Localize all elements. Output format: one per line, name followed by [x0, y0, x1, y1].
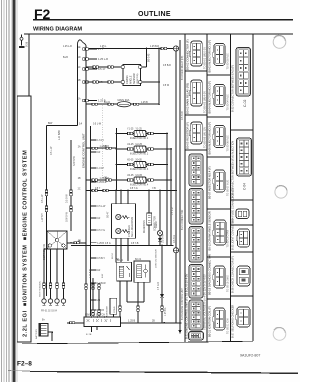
svg-text:TO B0-07 INJE: TO B0-07 INJE: [227, 179, 230, 196]
svg-text:HIGH TENSION: HIGH TENSION: [40, 281, 42, 297]
punch hole middle: [275, 186, 287, 198]
inline connector stacks on left verticals: [45, 190, 48, 193]
wire horizontal y190.5: [86, 190, 176, 192]
col1 connector icon row3: [191, 122, 203, 144]
wire horizontal y245.3: [71, 244, 173, 246]
svg-text:S/W B-W: S/W B-W: [66, 211, 69, 222]
svg-text:1R: 1R: [97, 152, 100, 154]
svg-text:0.5 B-R: 0.5 B-R: [173, 235, 176, 243]
svg-text:U2-25 U2-25: U2-25 U2-25: [127, 143, 143, 146]
instrument cluster lamp: [159, 191, 161, 231]
svg-text:1R: 1R: [97, 218, 100, 220]
svg-text:INJECTOR NO.4: INJECTOR NO.4: [130, 184, 149, 187]
svg-text:INJECTOR NO.1: INJECTOR NO.1: [130, 137, 149, 140]
wire top horizontal y48.5: [89, 48, 173, 50]
svg-text:B0-47: B0-47: [107, 211, 110, 218]
svg-text:B0-05 RESISTOR (F): B0-05 RESISTOR (F): [186, 122, 190, 149]
col3 big grid connector 1: [236, 48, 251, 97]
table col2 row borders: [207, 75, 231, 299]
wire bottom bus y322.8 right segment: [121, 322, 182, 324]
wire ECU spine vertical x86: [85, 46, 87, 318]
svg-text:0.5 G-O: 0.5 G-O: [158, 282, 160, 290]
wires out of checker bottom: [116, 238, 128, 262]
bottom page edge shadow: [30, 371, 298, 374]
svg-text:2B: 2B: [152, 321, 155, 323]
diagram left border above tab: [28, 34, 30, 97]
svg-text:TO B0-03 INJE: TO B0-03 INJE: [227, 53, 230, 70]
svg-text:0.5 Y-G: 0.5 Y-G: [97, 230, 105, 232]
svg-text:B-02 MAIN RELAY (FB): B-02 MAIN RELAY (FB): [181, 55, 184, 80]
col3 connector row6: [237, 307, 250, 327]
svg-text:1.25 B: 1.25 B: [141, 102, 148, 104]
svg-text:C-04: C-04: [243, 183, 247, 190]
distributor assembly: [47, 231, 67, 249]
svg-text:B-26: B-26: [63, 57, 69, 59]
circulation pump box: [110, 298, 117, 314]
col2 connector icon row4: [214, 170, 225, 192]
svg-text:0.5 L-W: 0.5 L-W: [41, 194, 44, 203]
svg-text:B0-02 MAIN RELAY (FB): B0-02 MAIN RELAY (FB): [186, 83, 190, 114]
svg-text:1.25 B-R: 1.25 B-R: [150, 46, 159, 48]
side tab box: [17, 96, 31, 342]
svg-text:2.2L EGI ■IGNITION SYSTEM ■E: 2.2L EGI ■IGNITION SYSTEM ■ENGINE CONTRO…: [23, 150, 29, 337]
col2 connector icon row2: [214, 85, 225, 107]
svg-text:1.0 1P: 1.0 1P: [97, 168, 104, 170]
col1 connector icon row2: [191, 80, 203, 106]
svg-text:X0-05 X0-05: X0-05 X0-05: [127, 159, 142, 162]
junction ring node x176 y250: [173, 248, 178, 253]
svg-text:TO B0-04 INJE: TO B0-04 INJE: [227, 94, 230, 111]
svg-text:B-22 CONNECTOR BETWEEN ENG (F): B-22 CONNECTOR BETWEEN ENG (F): [230, 65, 234, 112]
svg-text:Y-B: Y-B: [152, 188, 156, 190]
svg-text:L-W B/Y: L-W B/Y: [41, 213, 44, 222]
svg-text:0.5 Y-B: 0.5 Y-B: [131, 243, 139, 245]
svg-text:C-02: C-02: [243, 100, 247, 107]
svg-text:INJECTOR NO.2: INJECTOR NO.2: [130, 153, 149, 156]
svg-text:1.25 B-R: 1.25 B-R: [97, 182, 106, 184]
svg-text:COND: COND: [114, 306, 116, 313]
diode D2 right: [161, 245, 163, 294]
svg-text:0.5 L-R: 0.5 L-R: [172, 207, 174, 215]
svg-text:B0-18 DIAGNOSIS CONNECTOR: B0-18 DIAGNOSIS CONNECTOR: [208, 254, 212, 295]
svg-text:1R: 1R: [104, 178, 107, 180]
col3 connector row4: [238, 229, 250, 247]
wire left vertical x46.5: [46, 126, 48, 297]
wire crank sensor right to x159: [142, 81, 159, 83]
svg-text:L-R B/W: L-R B/W: [57, 130, 61, 140]
wire left vertical x70.8: [70, 140, 72, 231]
svg-text:B0-52: B0-52: [112, 252, 114, 259]
wire branch left y125.5: [47, 125, 78, 127]
svg-text:1.6 1Y: 1.6 1Y: [97, 140, 104, 142]
svg-text:2E: 2E: [78, 241, 81, 243]
svg-text:1D: 1D: [78, 57, 81, 59]
indicator lamp 2: [116, 228, 121, 233]
spine pin stubs with connector pairs: [83, 47, 108, 103]
svg-text:B0-04 INJECTOR NO.2 (F): B0-04 INJECTOR NO.2 (F): [208, 81, 212, 114]
svg-text:DISTRIBUTOR: DISTRIBUTOR: [43, 244, 46, 260]
table outer borders: [185, 34, 253, 342]
svg-text:WARN: WARN: [155, 221, 158, 228]
svg-text:1.25 L-R: 1.25 L-R: [63, 46, 72, 48]
table col1 row borders: [185, 71, 207, 150]
main relay box K1: [117, 262, 132, 281]
svg-text:1R: 1R: [97, 270, 100, 272]
svg-text:B-26 CHECK CONNECTOR (F): B-26 CHECK CONNECTOR (F): [230, 256, 234, 293]
col3 small connector row3: [236, 209, 249, 219]
svg-text:SELF-DIAGNOSIS: SELF-DIAGNOSIS: [131, 217, 134, 237]
svg-text:0.5 B-R: 0.5 B-R: [163, 65, 171, 67]
svg-text:14: 14: [79, 122, 83, 126]
svg-text:0.5 L-W: 0.5 L-W: [93, 124, 102, 126]
svg-text:B-21 CONNECTOR: B-21 CONNECTOR: [182, 209, 184, 230]
col2 connector icon row3: [214, 126, 225, 148]
svg-text:B-27 SELF-DIAG CHECKER: B-27 SELF-DIAG CHECKER: [230, 305, 234, 338]
svg-text:0.5 Y-G: 0.5 Y-G: [130, 188, 138, 190]
svg-text:B-22 ENGINE CONTROL UNIT (F) T: B-22 ENGINE CONTROL UNIT (F) TO ECU 0-1V…: [185, 273, 189, 339]
svg-text:0.5 L-W: 0.5 L-W: [97, 206, 106, 208]
svg-text:DIAGNOSIS: DIAGNOSIS: [143, 220, 146, 233]
svg-text:9A1UF2-807: 9A1UF2-807: [240, 354, 260, 358]
scan streak band left edge: [2, 0, 18, 382]
svg-text:(IGNITER): (IGNITER): [137, 73, 139, 84]
ground symbol below spine top: [77, 121, 79, 123]
col1 ECU long grid connector: [189, 154, 203, 186]
col3 big grid connector 2: [237, 138, 252, 176]
svg-text:MAIN 30A: MAIN 30A: [118, 98, 130, 102]
svg-text:BATTERY: BATTERY: [35, 329, 38, 339]
svg-text:2A: 2A: [78, 145, 81, 148]
svg-text:1.25 B-L: 1.25 B-L: [165, 307, 167, 316]
svg-text:1B: 1B: [78, 80, 81, 82]
col1 connector icon row1: [191, 41, 203, 66]
wire horizontal y104 with main fuse: [86, 103, 117, 105]
wire vertical x159: [158, 49, 160, 105]
svg-text:B-22 ENGINE CONTROL UNIT: B-22 ENGINE CONTROL UNIT: [182, 287, 184, 320]
svg-text:TO B0-06 INJE: TO B0-06 INJE: [227, 135, 230, 152]
svg-text:B1-01: B1-01: [104, 102, 111, 104]
wire right rail x176 down: [175, 51, 177, 323]
svg-text:F2–8: F2–8: [17, 361, 32, 368]
svg-text:TO B0-06 (M) 12V: TO B0-06 (M) 12V: [203, 127, 207, 148]
connector B-26 top left: [19, 34, 28, 48]
injector right rail x171: [170, 149, 172, 245]
wire crank sensor left pins to spine: [86, 66, 121, 68]
wires into checker top: [116, 191, 128, 204]
svg-text:0.5 L-W: 0.5 L-W: [50, 146, 53, 155]
svg-text:0.5 B-Y: 0.5 B-Y: [97, 258, 105, 260]
svg-text:B2-02: B2-02: [135, 259, 142, 261]
diagram bottom border: [22, 341, 253, 344]
battery output wire: [48, 332, 52, 341]
pairs above ignition switch: [85, 284, 87, 286]
svg-text:B0-02 CONNECTOR (F): B0-02 CONNECTOR (F): [186, 39, 190, 70]
spark plug 1: [43, 249, 45, 299]
wire pigtail squiggle top: [77, 40, 86, 46]
wire distributor to spine: [67, 242, 86, 244]
header rule: [33, 19, 293, 21]
col2 connector icon row6: [214, 266, 225, 288]
col1 bottom small grid: [189, 332, 204, 341]
svg-text:1C: 1C: [78, 67, 81, 69]
svg-text:INJECTOR NO.3: INJECTOR NO.3: [130, 168, 149, 171]
svg-text:0.5 G: 0.5 G: [105, 243, 111, 245]
col2 connector icon row5: [214, 220, 226, 245]
wire main bus vertical x77: [77, 46, 79, 126]
svg-text:0.5 W: 0.5 W: [163, 85, 170, 87]
resistor R1 zigzag: [121, 216, 129, 219]
svg-text:TERMINAL VOLTAGE 0-1V 4-5V 12V: TERMINAL VOLTAGE 0-1V 4-5V 12V 0-1V 4-5V: [203, 274, 207, 330]
svg-text:B0-13 CRANK ANGLE SENSOR: B0-13 CRANK ANGLE SENSOR: [208, 211, 212, 250]
svg-text:1R: 1R: [104, 146, 107, 148]
svg-text:TO B0-13 CRAN: TO B0-13 CRAN: [227, 229, 230, 247]
svg-text:1A: 1A: [78, 98, 81, 101]
relay box K2: [134, 261, 150, 282]
punch hole top: [273, 36, 286, 49]
table col3 row borders: [231, 130, 254, 296]
self-diagnosis checker box: [111, 204, 135, 239]
diode D1: [159, 236, 161, 238]
injector 4: [116, 174, 171, 186]
svg-text:B0-21 IGNITION COIL (F): B0-21 IGNITION COIL (F): [208, 306, 212, 337]
injector 3: [116, 159, 167, 171]
svg-text:1.25 L-R: 1.25 L-R: [98, 57, 108, 61]
pairs on bottom verticals: [119, 306, 121, 308]
svg-text:B-24 FUSE CONNECTOR (F): B-24 FUSE CONNECTOR (F): [230, 188, 234, 223]
injector feed vertical x116: [115, 128, 117, 191]
col3 connector row5: [237, 266, 250, 286]
crank angle sensor box U1: [123, 64, 141, 85]
svg-text:OUTLINE: OUTLINE: [138, 11, 171, 18]
spark plug 4: [63, 249, 65, 299]
injector 2: [116, 143, 171, 155]
inline pair on top wire: [161, 47, 163, 49]
svg-text:B 2B: B 2B: [86, 334, 92, 336]
svg-text:SENSOR: SENSOR: [133, 73, 136, 84]
svg-text:FR-01 02 03 04: FR-01 02 03 04: [41, 311, 58, 313]
ignition switch box SW1: [84, 317, 121, 327]
punch hole bottom: [273, 328, 286, 341]
wires below relays: [120, 281, 144, 323]
svg-text:U0-05 U0-05: U0-05 U0-05: [127, 174, 143, 177]
wire bottom bus y322.8 left segment: [67, 322, 84, 324]
fuse MAIN 30A oval: [117, 102, 131, 107]
svg-text:TO B0-01 (M) 0-1V: TO B0-01 (M) 0-1V: [203, 47, 207, 69]
sub rule / diagram top border: [24, 32, 293, 35]
svg-text:1.25 B: 1.25 B: [128, 320, 136, 323]
scattered wire labels: [42, 46, 171, 322]
wire right rail x180: [179, 40, 181, 330]
svg-text:1.25 B: 1.25 B: [97, 243, 104, 245]
col2 connector icon row1: [214, 44, 225, 66]
svg-text:TO B0-21 IGNI: TO B0-21 IGNI: [227, 318, 230, 334]
svg-text:B0-03 INJECTOR NO.1 (F): B0-03 INJECTOR NO.1 (F): [208, 40, 212, 73]
ECU pin rail x90.3: [89, 126, 91, 316]
svg-text:WIRING DIAGRAM: WIRING DIAGRAM: [33, 26, 82, 32]
injector 1: [116, 128, 167, 140]
svg-text:0.5 Y: 0.5 Y: [95, 188, 101, 190]
spark plug 3: [56, 249, 58, 299]
svg-text:1.25 B-W: 1.25 B-W: [90, 268, 92, 278]
svg-text:TO B0-03 (M) 4-5V: TO B0-03 (M) 4-5V: [203, 91, 207, 113]
stubs below ignition switch: [90, 327, 92, 332]
svg-text:0.5 B-W: 0.5 B-W: [181, 111, 184, 120]
svg-text:2C: 2C: [78, 189, 81, 191]
svg-text:IGNITION SWITCH: IGNITION SWITCH: [85, 315, 105, 317]
svg-text:1E: 1E: [78, 47, 81, 49]
diagnosis connector: [147, 213, 152, 225]
svg-text:1.25 L: 1.25 L: [100, 46, 107, 48]
svg-text:0.5 1Y: 0.5 1Y: [98, 67, 106, 71]
svg-text:S/W B/W: S/W B/W: [73, 156, 76, 166]
col2 connector icon row7: [214, 308, 225, 330]
svg-text:B0-145: B0-145: [147, 53, 151, 62]
indicator lamp 1: [116, 214, 121, 219]
svg-text:Y1-25 Y1-25: Y1-25 Y1-25: [127, 128, 142, 131]
resistor R2 zigzag: [121, 230, 129, 233]
svg-text:ENGINE CONTROL UNIT: ENGINE CONTROL UNIT: [82, 133, 86, 168]
svg-text:B0-07 INJECTOR NO.4 (F): B0-07 INJECTOR NO.4 (F): [208, 166, 212, 199]
svg-text:LOW OIL SENSOR: LOW OIL SENSOR: [156, 249, 158, 268]
svg-text:0.5 B-W: 0.5 B-W: [66, 194, 69, 203]
injector right rail x167: [166, 134, 168, 246]
wire spine feeds y180: [86, 179, 116, 181]
svg-text:B-25 JOINT CONNECTOR: B-25 JOINT CONNECTOR: [230, 219, 234, 250]
faint dotted vertical: [102, 98, 104, 180]
wire spine feeds y148: [86, 147, 116, 149]
svg-text:2B: 2B: [78, 178, 81, 180]
svg-text:TO B0-18 DIAG: TO B0-18 DIAG: [227, 275, 230, 292]
spark plug 2: [50, 249, 52, 299]
junction ring node x176: [173, 46, 178, 51]
battery box bottom left: [39, 323, 48, 336]
wire crank sensor top right pin up: [142, 49, 147, 68]
svg-text:B0-06 INJECTOR NO.3 (F): B0-06 INJECTOR NO.3 (F): [208, 122, 212, 155]
svg-text:B-26: B-26: [25, 41, 28, 47]
